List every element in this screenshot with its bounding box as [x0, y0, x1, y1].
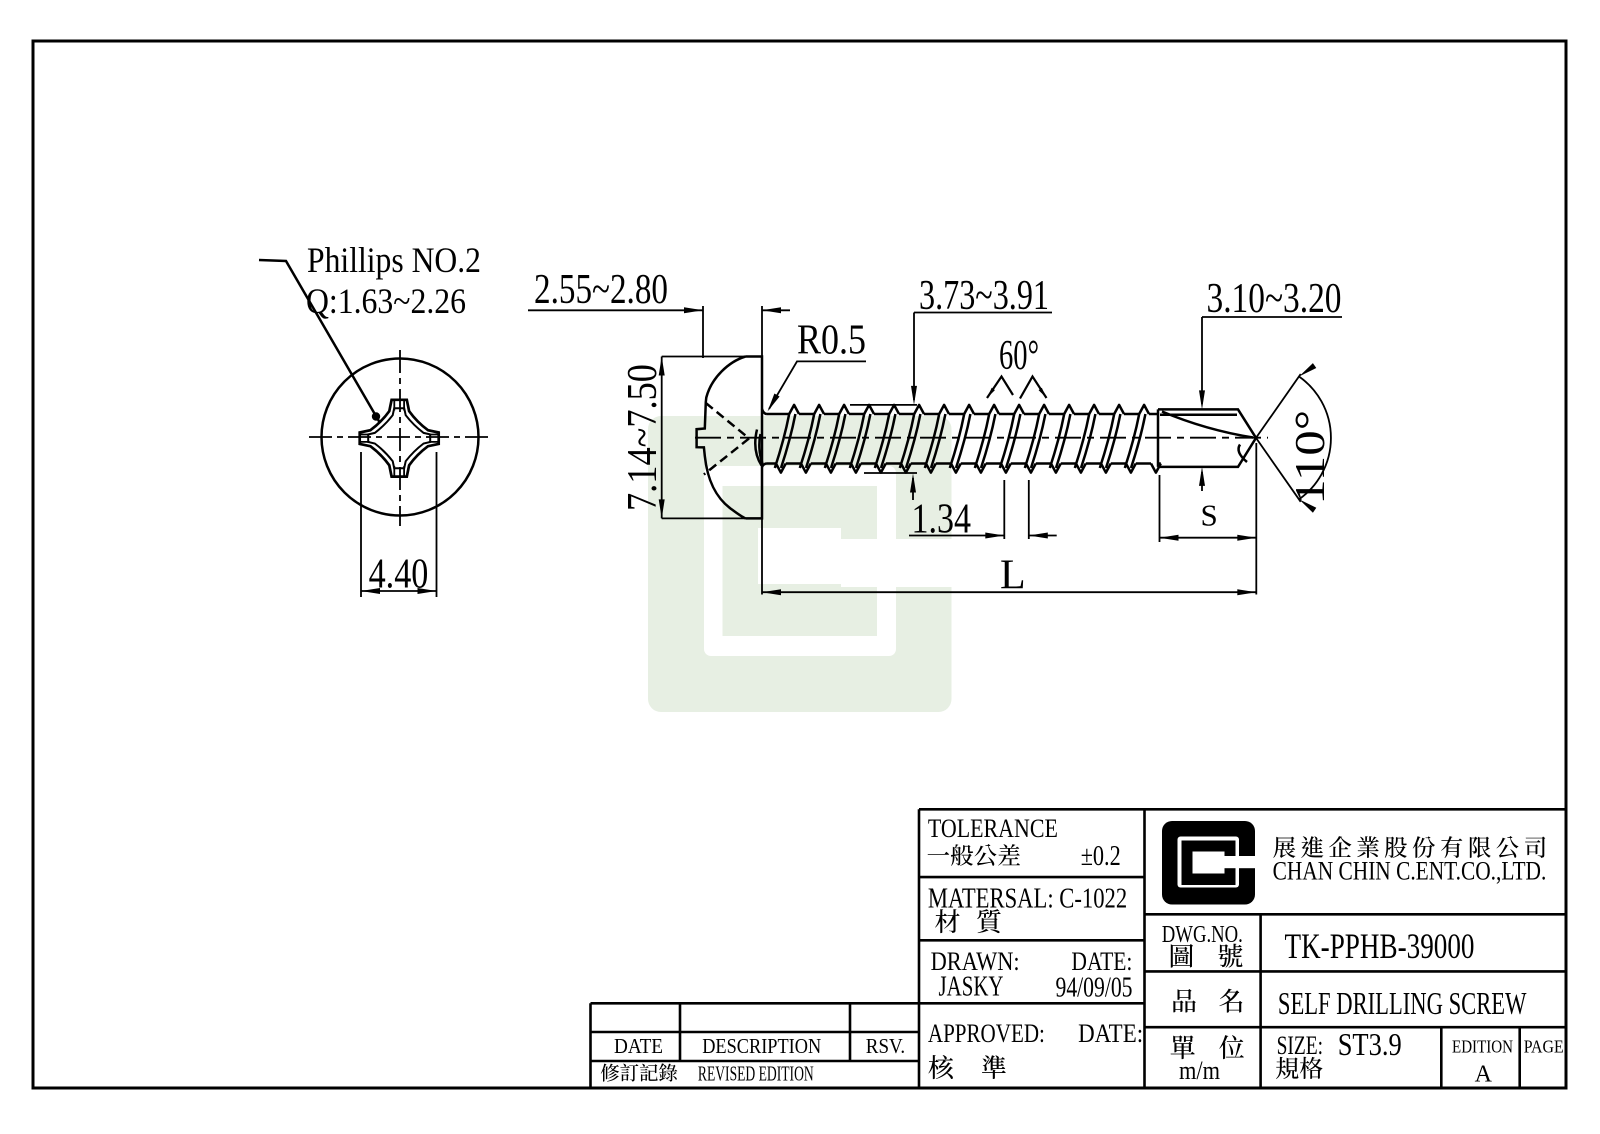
svg-text:R0.5: R0.5: [797, 318, 866, 364]
threaded shank: root lines: [767, 414, 1161, 464]
dimension 4.40: dimension line and arrows: [361, 590, 437, 592]
svg-text:DATE: DATE: [614, 1034, 663, 1058]
phillips recess tip wall lines: [361, 401, 438, 477]
svg-text:PAGE: PAGE: [1524, 1036, 1564, 1056]
svg-text:DESCRIPTION: DESCRIPTION: [702, 1034, 821, 1058]
svg-text:EDITION: EDITION: [1452, 1036, 1513, 1056]
svg-text:MATERSAL: C-1022: MATERSAL: C-1022: [928, 884, 1127, 915]
leader line with dot for phillips note: [259, 260, 380, 423]
drill flute curve: [1162, 412, 1253, 438]
svg-text:94/09/05: 94/09/05: [1056, 973, 1133, 1004]
side view: hidden recess dashed lines: [704, 403, 749, 475]
svg-text:S: S: [1201, 498, 1218, 533]
company logo (black C mark): [1162, 821, 1257, 905]
svg-text:m/m: m/m: [1179, 1056, 1220, 1085]
svg-text:A: A: [1475, 1062, 1493, 1088]
svg-text:ST3.9: ST3.9: [1338, 1026, 1402, 1062]
head-to-shank fillets: [762, 409, 767, 467]
thread start runout at head: [755, 430, 762, 466]
drill point inner edge line: [1160, 414, 1237, 417]
svg-text:Q:1.63~2.26: Q:1.63~2.26: [306, 281, 466, 321]
dimension 4.40: extension lines: [361, 452, 437, 597]
svg-text:2.55~2.80: 2.55~2.80: [534, 267, 668, 313]
svg-text:SIZE:: SIZE:: [1277, 1031, 1324, 1060]
top view: phillips recess inner outline: [368, 408, 430, 468]
dimension 2.55~2.80 line and arrows: [528, 309, 790, 311]
110 degree arc with arrows: [1299, 377, 1331, 500]
svg-text:4.40: 4.40: [369, 552, 429, 598]
svg-text:TOLERANCE: TOLERANCE: [928, 814, 1058, 843]
side view: center line: [695, 437, 1268, 439]
svg-text:TK-PPHB-39000: TK-PPHB-39000: [1285, 926, 1475, 966]
drill point body: [1158, 409, 1256, 467]
title block grid lines: [919, 809, 1567, 1088]
watermark: chan-chin C logo, light green: [648, 416, 955, 712]
thread flank helix lines: [775, 414, 1146, 468]
svg-text:60°: 60°: [999, 333, 1039, 379]
svg-text:REVISED EDITION: REVISED EDITION: [698, 1062, 814, 1086]
svg-text:JASKY: JASKY: [939, 971, 1004, 1002]
svg-text:110°: 110°: [1288, 410, 1334, 505]
top view: phillips recess outer outline: [360, 400, 439, 477]
svg-text:DWG.NO.: DWG.NO.: [1162, 922, 1243, 948]
company name CJK: [1273, 836, 1545, 858]
svg-text:±0.2: ±0.2: [1081, 841, 1121, 872]
head top/bottom edge extension lines (7.14~7.50): [662, 357, 762, 519]
2.55~2.80 extension lines: [703, 306, 762, 358]
product name cell: [1173, 989, 1242, 1013]
thread crests: bottom triangles: [776, 464, 1161, 473]
revision table grid: [591, 1003, 920, 1088]
thread crests: top triangles: [789, 405, 1149, 414]
svg-text:7.14~7.50: 7.14~7.50: [620, 364, 666, 511]
top view: center lines: [309, 350, 491, 526]
110 degree point angle lines: [1256, 374, 1301, 502]
svg-text:3.10~3.20: 3.10~3.20: [1207, 276, 1342, 322]
svg-text:RSV.: RSV.: [866, 1034, 905, 1058]
drill tip flute detail: [1239, 445, 1247, 463]
svg-text:CHAN CHIN C.ENT.CO.,LTD.: CHAN CHIN C.ENT.CO.,LTD.: [1273, 857, 1547, 886]
svg-text:DATE:: DATE:: [1078, 1019, 1143, 1048]
svg-text:APPROVED:: APPROVED:: [928, 1019, 1045, 1048]
side view: pan head outline: [697, 357, 762, 519]
svg-text:Phillips NO.2: Phillips NO.2: [307, 240, 481, 280]
unit cell: [1171, 1035, 1244, 1059]
top view: screw head circle: [322, 359, 479, 516]
svg-text:SELF DRILLING SCREW: SELF DRILLING SCREW: [1278, 985, 1527, 1021]
dimension 7.14~7.50 vertical line with arrows: [661, 357, 663, 519]
